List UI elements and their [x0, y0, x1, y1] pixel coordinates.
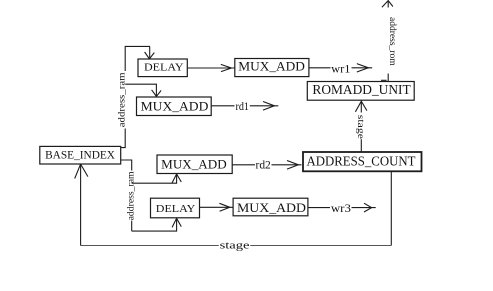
arrowhead into BASE_INDEX bottom [75, 164, 88, 178]
svg-text:BASE_INDEX: BASE_INDEX [45, 148, 115, 162]
svg-text:stage: stage [220, 240, 250, 251]
svg-text:address_ram: address_ram [125, 171, 136, 221]
wire wr3 from MUX_ADD U9 [308, 207, 376, 209]
wire arrow shaft into DELAY U1 top [149, 46, 151, 58]
arrowhead address_rom up [382, 1, 393, 8]
wire DELAY U8 to MUX_ADD U9 [200, 206, 233, 208]
wire ADDRESS_COUNT down [390, 172, 392, 246]
wire stage bottom horizontal [81, 245, 392, 247]
block MUX_ADD U2 (row2) [137, 97, 212, 116]
block MUX_ADD U6 (middle) [157, 155, 232, 174]
arrowhead wr3 [364, 203, 372, 212]
svg-text:ROMADD_UNIT: ROMADD_UNIT [312, 82, 410, 97]
svg-text:MUX_ADD: MUX_ADD [141, 100, 209, 114]
wire wr1 from MUX_ADD U3 [309, 67, 372, 69]
block DELAY U1 [138, 59, 187, 77]
svg-text:wr1: wr1 [331, 64, 350, 76]
wire DELAY U1 to MUX_ADD U3 [187, 67, 235, 69]
block ROMADD_UNIT U4 [307, 82, 414, 101]
wire BASE_INDEX right to lower riser [121, 160, 132, 231]
arrowhead rd1 [263, 102, 274, 111]
wire rd2 from MUX_ADD U6 [232, 164, 301, 166]
wire branch to MUX_ADD U2 top [125, 84, 156, 96]
svg-text:MUX_ADD: MUX_ADD [238, 60, 305, 74]
tick at ROMADD_UNIT top [381, 79, 387, 81]
svg-text:rd2: rd2 [256, 160, 271, 172]
arrowhead into MUX_ADD U2 top [152, 90, 162, 97]
svg-text:DELAY: DELAY [144, 62, 184, 74]
arrowhead into DELAY U8 bottom [172, 218, 181, 227]
block MUX_ADD U9 (bottom) [233, 198, 308, 216]
wire branch to MUX_ADD U6 bottom [132, 174, 177, 183]
svg-text:DELAY: DELAY [156, 203, 196, 215]
arrowhead stage up into ROMADD_UNIT [355, 101, 367, 112]
svg-text:ADDRESS_COUNT: ADDRESS_COUNT [307, 153, 416, 168]
wire rd1 from MUX_ADD U2 [211, 105, 278, 107]
svg-text:MUX_ADD: MUX_ADD [237, 201, 306, 215]
wire stage from ADDRESS_COUNT to ROMADD_UNIT [360, 102, 362, 152]
svg-text:stage: stage [355, 115, 366, 139]
block ADDRESS_COUNT U7 [303, 152, 422, 171]
arrowhead into MUX_ADD U6 bottom [172, 174, 181, 183]
wire address_rom shaft at top [387, 1, 389, 82]
svg-text:wr3: wr3 [331, 203, 351, 215]
arrowhead rd2 into ADDRESS_COUNT [287, 161, 298, 170]
arrowhead into MUX_ADD U9 left [219, 203, 229, 211]
svg-text:MUX_ADD: MUX_ADD [161, 157, 227, 171]
arrowhead into MUX_ADD U3 left [221, 64, 232, 71]
arrowhead into DELAY U1 top [145, 52, 155, 59]
svg-text:rd1: rd1 [236, 101, 250, 113]
arrowhead wr1 [357, 64, 369, 72]
block MUX_ADD U3 (top) [235, 59, 309, 77]
block BASE_INDEX U5 [40, 146, 121, 164]
svg-text:address_ram: address_ram [117, 72, 128, 128]
wire to DELAY U8 bottom [132, 219, 177, 232]
wire BASE_INDEX to top corner (address_ram riser) [121, 46, 150, 147]
block DELAY U8 (bottom) [151, 198, 200, 218]
svg-text:address_rom: address_rom [387, 17, 398, 66]
wire arrow up into BASE_INDEX bottom [80, 164, 82, 245]
